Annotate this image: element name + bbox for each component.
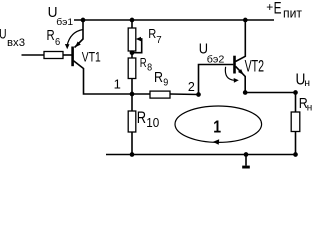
svg-text:2: 2	[188, 80, 195, 94]
svg-text:н: н	[307, 103, 313, 114]
svg-text:+: +	[266, 0, 273, 14]
svg-text:R: R	[140, 55, 147, 70]
svg-text:бэ1: бэ1	[56, 17, 73, 28]
svg-text:вх3: вх3	[7, 37, 25, 49]
svg-text:пит: пит	[283, 6, 302, 21]
svg-text:R: R	[148, 26, 156, 41]
svg-text:1: 1	[114, 77, 121, 92]
svg-text:8: 8	[147, 63, 153, 74]
svg-text:н: н	[304, 77, 310, 89]
svg-text:VT1: VT1	[82, 49, 101, 65]
svg-text:бэ2: бэ2	[207, 55, 225, 66]
svg-text:E: E	[274, 0, 282, 17]
svg-text:1: 1	[213, 117, 221, 137]
svg-text:VT2: VT2	[245, 57, 265, 76]
svg-text:R: R	[47, 28, 55, 44]
svg-text:9: 9	[163, 77, 168, 88]
svg-text:U: U	[0, 27, 7, 42]
svg-text:R: R	[154, 70, 163, 86]
svg-text:6: 6	[55, 37, 61, 48]
svg-text:R: R	[137, 109, 146, 127]
svg-text:7: 7	[156, 34, 162, 46]
svg-text:10: 10	[146, 116, 159, 130]
